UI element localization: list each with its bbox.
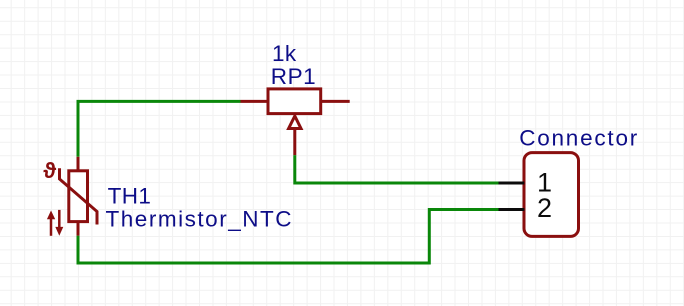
RP1 pin 3 (right) xyxy=(322,100,350,103)
wire TH1 pin2 to connector J pin 2 xyxy=(78,210,499,264)
wire RP1 pin1 to TH1 pin1 xyxy=(78,101,241,156)
svg-text:RP1: RP1 xyxy=(271,64,316,89)
TH1 pin 1 (top) xyxy=(77,157,80,170)
TH1 pin 2 (bottom) xyxy=(77,223,80,236)
TH1 body xyxy=(69,171,88,222)
TH1 diagonal NTC stroke xyxy=(60,168,98,224)
connector pin 1 xyxy=(499,182,525,185)
svg-text:2: 2 xyxy=(537,193,552,223)
svg-text:1k: 1k xyxy=(272,41,297,66)
svg-text:TH1: TH1 xyxy=(108,183,152,208)
potentiometer RP1 xyxy=(241,89,350,155)
RP1 wiper arrow xyxy=(289,116,301,129)
down arrow xyxy=(55,210,63,236)
RP1 pin 1 (left) xyxy=(241,100,267,103)
wire RP1 wiper pin to connector J pin 1 xyxy=(295,155,499,183)
up arrow xyxy=(47,211,55,236)
svg-text:Thermistor_NTC: Thermistor_NTC xyxy=(106,206,294,231)
svg-text:ϑ: ϑ xyxy=(43,158,56,183)
RP1 wiper pin 2 xyxy=(293,129,296,156)
svg-text:Connector: Connector xyxy=(519,126,639,151)
connector pin 2 xyxy=(499,208,525,211)
RP1 body xyxy=(268,89,321,114)
thermistor TH1 xyxy=(60,157,98,236)
connector J body xyxy=(524,153,579,237)
